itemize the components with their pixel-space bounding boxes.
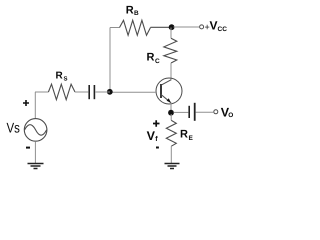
svg-text:R: R: [147, 52, 155, 64]
resistor RE: [166, 120, 176, 146]
svg-text:Vs: Vs: [7, 119, 20, 135]
wire base: [110, 91, 156, 93]
node emitter junction: [168, 110, 174, 116]
svg-text:f: f: [155, 135, 158, 143]
- sign source: [26, 147, 30, 149]
svg-text:CC: CC: [218, 26, 228, 33]
+ sign Vf: [153, 120, 160, 127]
source Vs circle: [24, 119, 47, 142]
wire source top: [34, 92, 36, 118]
capacitor C1: [88, 85, 90, 99]
wire source bottom: [34, 141, 36, 163]
svg-text:R: R: [180, 129, 188, 141]
wire VCC node down to RC: [170, 28, 172, 39]
- sign Vf: [156, 147, 159, 149]
node base junction: [107, 89, 113, 95]
terminal +VCC: [200, 25, 204, 29]
ground source: [28, 164, 44, 169]
transistor Q1 emitter arrow: [167, 98, 171, 103]
svg-text:E: E: [189, 135, 194, 142]
svg-text:C: C: [155, 58, 160, 65]
transistor Q1 base bar: [160, 84, 162, 98]
source Vs sine: [25, 125, 47, 136]
svg-text:R: R: [56, 71, 64, 82]
wire node to RE: [170, 114, 172, 120]
capacitor C2: [188, 106, 190, 118]
transistor Q1 circle: [156, 78, 182, 104]
wire top horizontal left segment: [110, 27, 120, 29]
transistor Q1 collector lead: [161, 80, 171, 85]
ground RE: [165, 164, 180, 169]
svg-text:O: O: [228, 112, 233, 119]
resistor RC: [164, 38, 177, 63]
svg-text:S: S: [64, 76, 68, 83]
svg-text:V: V: [147, 129, 156, 143]
wire input left segment: [35, 91, 48, 93]
wire emitter to node: [170, 103, 172, 113]
svg-text:V: V: [210, 19, 218, 33]
svg-text:B: B: [134, 10, 139, 17]
wire C2 to Vo terminal: [196, 111, 214, 113]
+ sign source: [23, 100, 29, 106]
wire RC to collector: [170, 63, 172, 81]
wire node to C2: [174, 111, 189, 113]
wire top-left vertical (base to RB): [109, 28, 111, 93]
wire C1 to base node: [95, 91, 110, 93]
wire RS to C1: [75, 91, 88, 93]
resistor RS: [48, 84, 75, 100]
svg-text:R: R: [126, 5, 134, 17]
transistor Q1 emitter lead: [161, 95, 171, 103]
resistor RB: [120, 20, 170, 35]
node junction RB/RC/VCC: [169, 24, 175, 30]
wire RE to ground: [170, 146, 172, 163]
wire node to VCC terminal: [174, 26, 200, 28]
terminal Vo: [214, 110, 218, 114]
